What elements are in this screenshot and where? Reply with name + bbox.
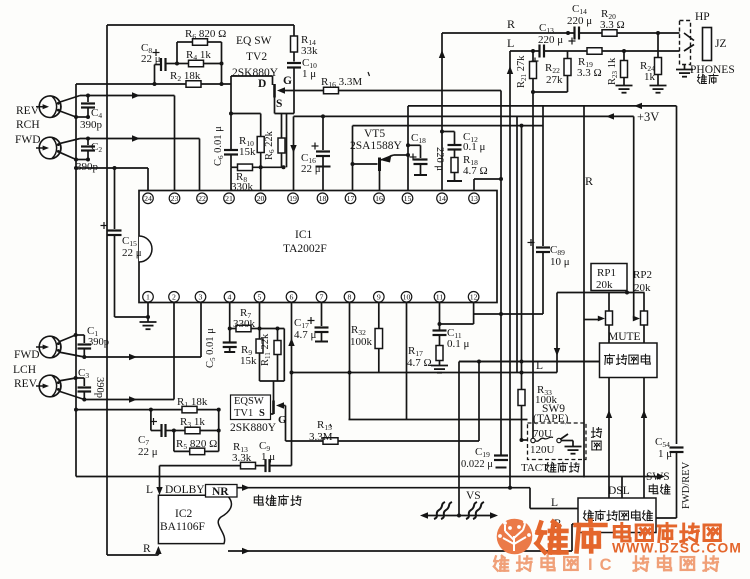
wire common to pin 24 (76, 168, 148, 191)
resistor R6 (177, 39, 222, 84)
capacitor C89 (474, 106, 550, 314)
label SW9 (542, 403, 565, 415)
resistor R8 (231, 164, 284, 171)
arrow on FWD wire (132, 135, 140, 141)
label C2 (91, 141, 102, 154)
wire FWD2 bottom to pin3 (59, 303, 202, 358)
svg-text:EQ SW: EQ SW (236, 35, 272, 47)
svg-text:22 μ: 22 μ (138, 446, 158, 458)
node x521 rail (520, 124, 524, 128)
capacitor C1 (78, 335, 92, 357)
tape head REV (R channel) (36, 96, 61, 118)
svg-text:13: 13 (470, 194, 478, 203)
transistor TV2 channel (273, 84, 276, 98)
svg-text:VT5: VT5 (364, 128, 385, 140)
wire L riser (509, 51, 511, 488)
capacitor C11 (433, 331, 447, 346)
resistor R18 (447, 158, 462, 182)
node pin8 H2 (348, 371, 352, 375)
label PHONES (690, 64, 735, 76)
svg-text:20k: 20k (634, 282, 651, 294)
label IC1 (295, 229, 313, 241)
label C1 (87, 325, 98, 338)
wire x533 vertical (532, 92, 534, 438)
node emitter rail (406, 153, 410, 157)
label C18 (411, 132, 426, 145)
arrow down pin19 (290, 145, 296, 153)
label VT5 (364, 128, 385, 140)
wire DSL drop (621, 477, 623, 499)
wire pin 19 riser (293, 116, 295, 190)
resistor R32 (375, 303, 383, 373)
tape head REV (L channel) (36, 375, 61, 397)
label REV (16, 105, 40, 117)
label R17 (408, 345, 423, 358)
label C54 value (658, 448, 672, 460)
wire R channel line (583, 106, 585, 478)
node head common 2 (74, 158, 78, 162)
node pin5 (258, 327, 262, 331)
label C17 value (294, 329, 317, 341)
label R14 (301, 34, 316, 47)
svg-text:21: 21 (225, 194, 233, 203)
wire top rail (107, 24, 294, 26)
label JZ (715, 38, 727, 50)
node R4 right (220, 62, 224, 66)
ground R24 (650, 86, 667, 93)
wire pin20 stub (260, 167, 262, 190)
label R mid (585, 174, 593, 188)
svg-text:RP1: RP1 (597, 267, 616, 279)
svg-text:3.3M: 3.3M (309, 431, 333, 443)
tick after 3.3M (368, 72, 370, 76)
label C89 (550, 244, 565, 257)
node x521 muting (520, 360, 524, 364)
svg-text:FWD: FWD (15, 134, 41, 146)
node R6b bottom (282, 165, 286, 169)
svg-text:220 μ: 220 μ (434, 147, 445, 171)
svg-text:3.3k: 3.3k (232, 452, 252, 464)
node R4 left (175, 62, 179, 66)
label HP (695, 11, 710, 23)
label R8 value (231, 181, 254, 193)
capacitor C13 (532, 45, 545, 65)
label BA1106F (160, 521, 205, 533)
arrow pin6 up (288, 338, 294, 346)
svg-text:220 μ: 220 μ (538, 34, 563, 46)
label C2 390p (80, 119, 103, 131)
svg-text:LCH: LCH (13, 364, 36, 376)
wire VS column (458, 362, 460, 516)
svg-text:3: 3 (199, 293, 203, 302)
svg-text:2: 2 (172, 293, 176, 302)
svg-text:27k: 27k (546, 74, 563, 86)
wire TV2 source bypass (286, 114, 288, 168)
wire R21 R22 bottom (533, 91, 568, 93)
svg-text:REV: REV (14, 378, 38, 390)
svg-text:IC1: IC1 (295, 229, 313, 241)
label EQ SW (236, 35, 272, 47)
node C15 top (113, 166, 117, 170)
watermark url (612, 541, 742, 556)
label R3 (180, 416, 205, 429)
arrow +3V lower (606, 113, 614, 119)
resistor R14 (291, 36, 298, 52)
resistor R10 (257, 137, 264, 168)
label C3 value (94, 377, 105, 398)
node pin1 (146, 315, 150, 319)
watermark slogan (494, 556, 718, 574)
ground R23 (616, 86, 633, 93)
resistor R4 (177, 60, 222, 67)
label DOLBY (165, 484, 205, 496)
resistor R7 (230, 325, 285, 332)
node R11 top (276, 327, 280, 331)
wiper arrow RP1 (584, 316, 605, 322)
tape squiggle right (466, 502, 484, 519)
svg-text:20: 20 (257, 194, 265, 203)
svg-text:R2 18k: R2 18k (170, 70, 201, 83)
wire VS tape motion (420, 512, 498, 518)
svg-text:HP: HP (695, 11, 710, 23)
watermark weiku big (537, 521, 606, 553)
svg-text:R11 22k: R11 22k (260, 333, 272, 366)
label R drv (554, 518, 562, 530)
label R33 (537, 384, 552, 397)
label C8 value (141, 53, 161, 65)
label IC2 (175, 508, 193, 520)
label R33 value (535, 394, 558, 406)
svg-text:G: G (283, 75, 292, 87)
label R19 (578, 56, 593, 69)
wire C11 to pin12 (440, 303, 474, 325)
resistor R11 (274, 329, 281, 382)
svg-text:FWD/REV: FWD/REV (681, 461, 692, 509)
box NR (206, 485, 238, 498)
svg-text:0.1 μ: 0.1 μ (463, 141, 486, 153)
label R22 value (546, 74, 563, 86)
svg-text:3.3 Ω: 3.3 Ω (577, 67, 602, 79)
wire FWD2 top (59, 335, 85, 342)
svg-text:NR: NR (212, 486, 229, 498)
resistor R21 (530, 51, 537, 92)
svg-text:IC: IC (588, 556, 619, 574)
wire bus L to SWS (76, 476, 660, 478)
label R7 value (233, 318, 256, 330)
wire pin10 col (406, 303, 408, 420)
label R6 (185, 28, 226, 41)
label TV1 (234, 408, 253, 419)
label C7 (138, 434, 149, 447)
node C2 bottom (86, 158, 90, 162)
svg-text:23: 23 (171, 194, 179, 203)
resistor R3 (174, 427, 219, 434)
arrow up mute2 (641, 410, 647, 418)
label C16 value (301, 163, 321, 175)
wire REV head bottom (59, 111, 89, 118)
node R2 right (220, 82, 224, 86)
node switch left (520, 438, 524, 442)
svg-text:TV1: TV1 (234, 408, 253, 419)
svg-text:390p: 390p (76, 161, 99, 173)
label R in (143, 543, 151, 555)
wire REV head top to pin 23 (59, 96, 175, 191)
label C19 value (461, 459, 493, 470)
svg-text:4.7 Ω: 4.7 Ω (407, 357, 432, 369)
label drive info circuit (584, 510, 653, 520)
node R21 top (531, 49, 535, 53)
transistor VT5 (353, 155, 409, 191)
wire bus H1 (459, 361, 600, 363)
label C3 (78, 367, 89, 380)
svg-text:7: 7 (320, 293, 324, 302)
node C7 top (149, 408, 153, 412)
label C1 value (88, 337, 109, 348)
label R13 (233, 441, 248, 454)
label 70U (533, 428, 552, 440)
svg-text:PHONES: PHONES (690, 64, 735, 76)
label R4 (186, 49, 211, 62)
label R14 value (301, 45, 318, 57)
svg-text:R: R (507, 17, 515, 31)
label C8 (141, 42, 152, 55)
label REV2 (14, 378, 38, 390)
resistor R5 (174, 410, 219, 455)
label R16 (321, 76, 362, 89)
label EQSW (234, 396, 264, 407)
node x521 L (520, 371, 524, 375)
node L riser join (508, 486, 512, 490)
svg-text:9: 9 (377, 293, 381, 302)
watermark dianzishichangwang (614, 523, 720, 541)
ground SW9 (565, 447, 582, 454)
IC U1 bottom pins 1-12 (143, 292, 479, 303)
label R18 (463, 154, 478, 167)
svg-text:390p: 390p (94, 377, 105, 398)
arrow IC2 R out (242, 548, 250, 554)
capacitor C4 (81, 96, 95, 118)
capacitor C16 (312, 116, 331, 190)
wire rail +3V lower (294, 115, 634, 117)
node R1 right (217, 408, 221, 412)
wire common rail x76 (75, 84, 77, 477)
tape head FWD (R channel) (36, 137, 61, 159)
capacitor C12 (440, 130, 462, 158)
label C5 (205, 328, 217, 368)
svg-text:IC2: IC2 (175, 508, 193, 520)
label C4 (91, 107, 102, 120)
IC U1 top pins 24-13 (143, 193, 480, 204)
svg-text:120U: 120U (530, 444, 555, 456)
label C89 value (550, 256, 570, 268)
arrow R riser up (439, 50, 445, 58)
svg-text:330k: 330k (233, 318, 256, 330)
label C13 value (538, 34, 563, 46)
ground pin1 (140, 322, 157, 329)
label R23 (607, 57, 619, 85)
label VS (466, 490, 481, 502)
label FWD2 (14, 349, 40, 361)
label L mid (536, 360, 543, 372)
node C3 bottom (82, 398, 86, 402)
label G2 (278, 414, 287, 426)
capacitor C17 (308, 303, 329, 342)
svg-text:15k: 15k (240, 355, 257, 367)
label R7 (240, 307, 251, 320)
label R8 (236, 171, 247, 184)
tape head FWD (L channel) (36, 336, 61, 358)
node pin13 T (499, 177, 503, 181)
capacitor C54 (656, 448, 684, 519)
svg-text:390p: 390p (88, 337, 109, 348)
label C17 (294, 317, 309, 330)
arrow up mute1 (606, 410, 612, 418)
label C11 value (447, 338, 470, 350)
wire R14 top (293, 25, 295, 36)
label FWD/REV (681, 461, 692, 509)
resistor R13 (160, 462, 266, 469)
label C54 (655, 436, 670, 449)
label C15 (122, 235, 137, 248)
wire right edge riser (676, 106, 678, 444)
label R10 (239, 135, 254, 148)
wire pin13 connect (474, 179, 501, 191)
wire NR out bus (237, 488, 578, 509)
node C8 bottom (153, 82, 157, 86)
node C16 rail (321, 114, 325, 118)
label +3V (637, 110, 659, 124)
resistor R15 (286, 362, 480, 445)
label 120U (530, 444, 555, 456)
svg-text:11: 11 (436, 293, 444, 302)
label R1 (177, 396, 208, 409)
svg-text:4.7 Ω: 4.7 Ω (463, 165, 488, 177)
label R9 value (240, 355, 257, 367)
svg-text:1 μ: 1 μ (658, 448, 672, 460)
wire R16 to pin13 loop (500, 91, 502, 456)
capacitor C14 (569, 27, 580, 45)
arrow down to L (554, 348, 560, 356)
resistor R6b 22k (278, 114, 285, 168)
label C9 value (261, 451, 275, 463)
svg-text:DOLBY: DOLBY (165, 484, 205, 496)
label R24 (640, 60, 655, 73)
wire muting feed (459, 361, 600, 363)
node C2 top (86, 137, 90, 141)
label R15 value (309, 431, 333, 443)
wire pin17 col (352, 126, 354, 191)
svg-text:10 μ: 10 μ (550, 256, 570, 268)
label C10 value (302, 68, 316, 80)
transistor TV1 source (267, 414, 274, 420)
wire bus H2 (292, 372, 558, 374)
arrow IC2 R in (155, 546, 161, 554)
label R20 (601, 8, 616, 21)
label R32 value (350, 336, 373, 348)
resistor R20 (602, 30, 617, 37)
label C2 value (76, 161, 99, 173)
label L out (507, 36, 514, 50)
svg-text:+3V: +3V (637, 110, 659, 124)
node VT5 base (351, 162, 355, 166)
capacitor C18 (406, 143, 428, 175)
node C4 top (86, 94, 90, 98)
wire pin6 col (291, 303, 293, 466)
svg-text:S: S (259, 408, 265, 419)
node common pin24 (74, 166, 78, 170)
label TV2 (246, 51, 267, 63)
label D (258, 78, 266, 90)
svg-text:RCH: RCH (16, 119, 40, 131)
capacitor C9 (266, 459, 292, 472)
label 2SK880Y (232, 67, 279, 79)
node D col (229, 112, 233, 116)
wire pin11 col (439, 303, 441, 331)
resistor R22 (564, 51, 571, 92)
svg-text:R: R (143, 543, 151, 555)
node C14 left (566, 31, 570, 35)
label C11 (447, 327, 462, 340)
label kaiguan (switch) (649, 484, 670, 494)
node C89 arm (499, 312, 503, 316)
svg-text:1k: 1k (644, 71, 656, 83)
resistor R9 (256, 339, 263, 381)
label MUTE (608, 331, 641, 343)
label C9 (259, 440, 270, 453)
wire R1 row (76, 409, 219, 411)
svg-text:L: L (146, 484, 153, 496)
node R3 right (217, 429, 221, 433)
label C12 value (463, 141, 486, 153)
svg-text:1: 1 (146, 293, 150, 302)
svg-text:SWS: SWS (646, 471, 670, 483)
node hp bias (531, 90, 535, 94)
resistor R24 (655, 33, 662, 85)
svg-text:JZ: JZ (715, 38, 727, 50)
svg-text:MUTE: MUTE (608, 331, 641, 343)
label R18 value (463, 165, 488, 177)
box TACT dashed (528, 423, 587, 460)
resistor R2 (186, 81, 201, 88)
tape squiggle left (434, 502, 452, 519)
wire pin4 col (229, 303, 231, 343)
label L drv (551, 497, 558, 509)
label RP2 (633, 269, 652, 281)
capacitor C7 (150, 410, 174, 437)
svg-text:24: 24 (144, 194, 152, 203)
wire rail y125 (353, 125, 544, 127)
arrow dolby L (156, 487, 162, 495)
IC U2 BA1106F body (158, 495, 231, 543)
svg-text:R4 1k: R4 1k (186, 49, 211, 62)
node R10 bottom (259, 165, 263, 169)
wire REV2 top (59, 378, 85, 381)
label R24 value (644, 71, 656, 83)
node VS (457, 514, 461, 518)
svg-text:R6 22k: R6 22k (264, 130, 276, 160)
wire muting to driver 1 (608, 378, 610, 499)
svg-text:L: L (551, 497, 558, 509)
wire TV2 drain (231, 76, 273, 85)
node rail R1 (74, 408, 78, 412)
wire gate to R16 (338, 90, 501, 92)
potentiometer RP2 (641, 293, 648, 344)
capacitor C3 (78, 378, 92, 400)
wire FWD head bottom (59, 152, 89, 160)
svg-text:2SK880Y: 2SK880Y (232, 67, 279, 79)
label R22 (545, 62, 560, 75)
svg-text:14: 14 (438, 194, 446, 203)
